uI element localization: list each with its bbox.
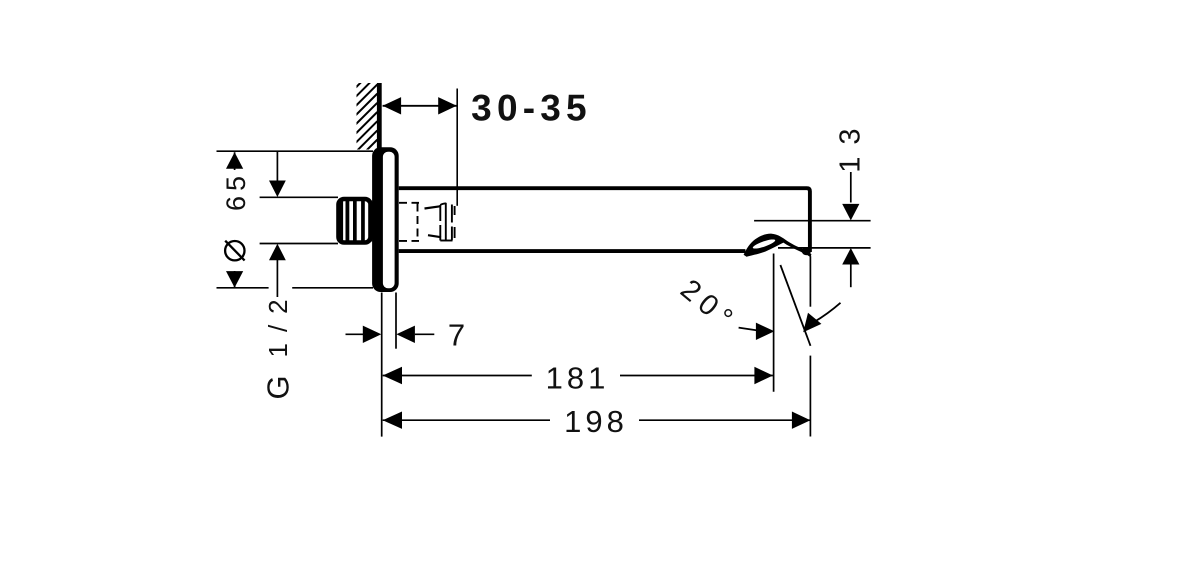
- extension line flange bottom left: [217, 287, 269, 289]
- label Ø 65: [225, 241, 245, 261]
- dimension 181 right arrow: [754, 367, 773, 384]
- extension line 13 top reference: [754, 220, 871, 222]
- dimension G1/2 bottom arrow: [269, 244, 286, 261]
- spout pipe bottom edge: [399, 249, 746, 253]
- label Ø65 background: [222, 170, 248, 271]
- svg-text:30-35: 30-35: [471, 88, 592, 129]
- flange escutcheon: [372, 147, 399, 292]
- dimension G1/2 top arrow: [269, 181, 286, 198]
- arrow 20 degrees pointing right: [756, 323, 775, 340]
- dimension Ø65 bottom arrow: [226, 271, 243, 288]
- dimension 181 line left: [383, 375, 532, 377]
- dimension 13 line top: [850, 172, 852, 203]
- dimension 13 down arrow: [842, 204, 859, 221]
- dimension Ø65 line: [234, 152, 236, 287]
- leader line 20 degrees: [739, 328, 758, 331]
- wall hatching: [351, 66, 377, 184]
- dimension 13 line bottom: [850, 265, 852, 288]
- extension line nipple top: [260, 196, 338, 198]
- spout outlet curl: [744, 234, 812, 258]
- threaded nipple G1/2: [339, 199, 373, 243]
- spout pipe top and right edge: [399, 188, 810, 252]
- extension line wall face bottom: [381, 293, 383, 437]
- svg-text:65: 65: [221, 171, 251, 211]
- outlet lens white gap: [752, 238, 776, 251]
- extension line for 30-35: [456, 89, 458, 206]
- svg-text:G: G: [261, 375, 296, 399]
- dimension 181 left arrow: [383, 367, 402, 384]
- angle 20 degree slant line: [780, 265, 810, 346]
- dimension 7 left arrow: [363, 326, 382, 343]
- dimension G1/2 top line: [276, 151, 278, 181]
- hidden detail middle dashes: [425, 206, 442, 237]
- svg-text:181: 181: [546, 361, 610, 396]
- wall line: [377, 83, 382, 152]
- svg-text:1/2: 1/2: [263, 288, 293, 357]
- dimension 198 right arrow: [792, 412, 811, 429]
- extension line flange top left: [217, 150, 374, 152]
- dimension 7 left tail: [346, 333, 365, 335]
- extension line spout tip 181: [773, 254, 775, 392]
- svg-text:13: 13: [835, 116, 867, 172]
- dimension 198 line right: [639, 419, 810, 421]
- extension line nipple bottom: [260, 243, 338, 245]
- dimension 181 line right: [620, 375, 773, 377]
- dimension 30-35 left arrow: [383, 97, 402, 114]
- svg-text:7: 7: [448, 318, 465, 353]
- dimension 30-35 line: [383, 105, 457, 107]
- dimension 7 right arrow: [396, 326, 415, 343]
- dimension 198 line left: [383, 419, 550, 421]
- dimension G1/2 bottom line: [276, 260, 278, 297]
- extension line spout end 198: [809, 256, 811, 307]
- extension line 13 bottom reference: [778, 247, 871, 249]
- angle leader curved tail: [814, 303, 841, 322]
- hidden detail dashed rectangle: [399, 203, 419, 241]
- dimension 198 left arrow: [383, 412, 402, 429]
- dimension Ø65 top arrow: [226, 152, 243, 169]
- svg-text:198: 198: [564, 404, 628, 439]
- angle arrow pointing down-left: [803, 313, 821, 333]
- dimension 30-35 right arrow: [438, 97, 457, 114]
- dimension 13 up arrow: [842, 248, 859, 265]
- extension line flange front bottom: [395, 293, 397, 349]
- dimension 7 right tail: [415, 333, 434, 335]
- hidden detail cartridge lines: [440, 203, 454, 241]
